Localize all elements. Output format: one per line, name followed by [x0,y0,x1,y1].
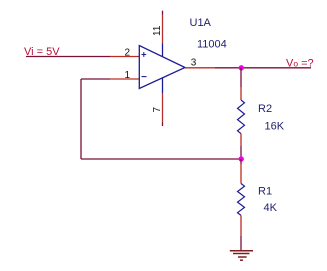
pin 1 stub of U1A [110,78,139,80]
wire from output node down to R2 [240,68,242,87]
pin 2 stub of U1A [110,56,139,58]
svg-text:2: 2 [125,48,131,59]
svg-text:Vo =?: Vo =? [286,57,314,69]
svg-text:4K: 4K [264,202,278,214]
wire R1 to ground [240,236,242,250]
wire node to R1 [240,159,242,164]
wire output net [215,67,311,69]
op-amp minus marker [142,76,147,78]
wire feedback top segment to pin 1 [81,78,110,80]
resistor R2 bottom lead [240,134,242,146]
svg-text:11: 11 [152,25,163,36]
svg-text:11004: 11004 [197,39,227,51]
wire Vi net horizontal [26,56,110,58]
wire feedback bottom horizontal [81,158,241,160]
svg-text:16K: 16K [265,121,285,133]
resistor R2 top lead [240,87,242,100]
pin 3 output stub [185,67,215,69]
svg-text:Vi = 5V: Vi = 5V [24,46,60,58]
resistor R1 bottom lead [240,215,242,236]
pin 11 (V+) vertical [162,11,164,15]
wire feedback left vertical [80,79,82,159]
svg-text:7: 7 [152,107,163,113]
node junction dot feedback [239,156,244,161]
svg-text:3: 3 [191,58,197,69]
svg-text:R1: R1 [258,186,272,198]
svg-text:U1A: U1A [190,17,212,29]
resistor R1 top lead [240,164,242,184]
svg-text:R2: R2 [258,103,272,115]
wire R2 to node [240,146,242,159]
resistor R1 zigzag body [238,184,245,216]
op-amp plus marker [142,52,147,57]
pin 7 (V-) vertical [162,78,164,93]
svg-text:1: 1 [125,70,131,81]
op-amp U1A triangle [139,46,185,89]
node junction dot at output [239,65,244,70]
resistor R2 zigzag body [238,100,245,134]
ground symbol [230,251,253,261]
